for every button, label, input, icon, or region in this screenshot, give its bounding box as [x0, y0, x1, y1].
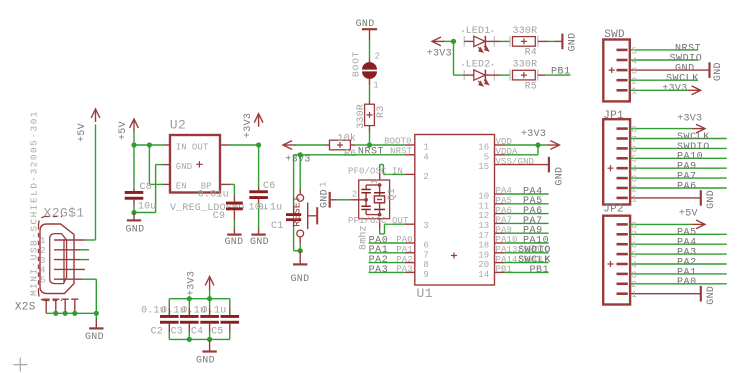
- svg-text:10: 10: [478, 192, 489, 202]
- junction dot at reset ground node: [298, 248, 303, 253]
- svg-text:GND: GND: [85, 332, 104, 343]
- svg-text:2: 2: [40, 246, 46, 256]
- wire to ground below C8: [133, 213, 135, 220]
- svg-text:PB1: PB1: [530, 265, 550, 276]
- svg-text:16: 16: [478, 143, 489, 153]
- wire crystal pin2 to ground: [331, 199, 337, 201]
- svg-text:5: 5: [632, 251, 638, 261]
- svg-text:2: 2: [375, 52, 381, 62]
- wire U2 BP pin to C9: [220, 183, 230, 185]
- connector X2G$1 dashed shield outline: [39, 217, 63, 301]
- svg-text:1: 1: [370, 179, 380, 185]
- wire jumper to R3: [369, 78, 371, 85]
- svg-text:GND: GND: [568, 33, 579, 52]
- connector X2G$1 outer shell: [40, 224, 74, 294]
- JP1 pin8 wire +3V3: [630, 128, 692, 130]
- JP1 pin1 wire GND: [630, 197, 701, 199]
- supply +3V3 arrow (cap bank): [205, 277, 214, 286]
- svg-text:1: 1: [632, 87, 638, 97]
- ground symbol below C6: [251, 234, 265, 236]
- junction dot VDD/VDDA: [535, 142, 540, 147]
- wire EN tie to IN: [148, 145, 150, 184]
- supply +3V3 arrow (pull-up R6): [283, 141, 292, 150]
- junction dot LED supply: [451, 39, 456, 44]
- svg-text:7: 7: [632, 135, 638, 145]
- SWD pin4 wire SWDIO: [630, 59, 698, 61]
- svg-text:1: 1: [319, 181, 329, 187]
- svg-text:3: 3: [632, 175, 638, 185]
- svg-text:+5V: +5V: [679, 209, 698, 220]
- svg-text:6: 6: [632, 241, 638, 251]
- svg-text:19: 19: [478, 250, 489, 260]
- pushbutton RESET (S1): [297, 195, 304, 202]
- supply +3V3 arrow (SWD): [692, 86, 701, 95]
- wire NRST down to reset switch: [299, 155, 301, 189]
- JP2 pin2 wire PA0: [630, 283, 727, 285]
- ground symbol below C8: [127, 219, 141, 221]
- svg-text:PA9: PA9: [496, 225, 513, 235]
- ground symbol below X2S: [89, 327, 103, 329]
- crystal Q1 internal symbol: [366, 184, 380, 186]
- JP1 pin4 wire PA9: [630, 167, 727, 169]
- svg-text:5: 5: [484, 152, 490, 162]
- svg-text:VDDA: VDDA: [496, 147, 519, 157]
- svg-text:GND: GND: [196, 356, 215, 367]
- svg-text:0.01u: 0.01u: [198, 190, 229, 201]
- svg-text:GND: GND: [291, 274, 310, 285]
- ground symbol below C9: [227, 234, 241, 236]
- JP2 pin4 wire PA2: [630, 263, 727, 265]
- svg-text:1: 1: [632, 290, 638, 300]
- junction dot at C8 top: [131, 142, 136, 147]
- ground symbol right of R4 (rotated): [561, 34, 563, 50]
- capacitor C3 0.1u: [188, 299, 190, 308]
- svg-text:MINI-USB-SCHIELD-32005-301: MINI-USB-SCHIELD-32005-301: [29, 110, 40, 296]
- JP2 origin cross: [608, 261, 614, 267]
- SWD pin3 wire GND: [630, 69, 710, 71]
- U1 VSS/GND wire: [495, 164, 549, 166]
- X2G$1 pin 3 (D+) lead with stub: [54, 259, 80, 261]
- SWD origin cross: [609, 67, 615, 73]
- X2G$1 pin 4 (ID) lead: [54, 268, 85, 270]
- svg-text:PA2: PA2: [396, 255, 413, 265]
- svg-text:PA4: PA4: [496, 186, 513, 196]
- svg-text:15: 15: [478, 162, 489, 172]
- wire LED1 to R4: [494, 40, 500, 42]
- supply +5V arrow (regulator input): [130, 119, 139, 128]
- junction dot C8 ground node: [131, 210, 136, 215]
- U2 origin cross: [196, 161, 202, 167]
- JP1 pin contacts: [617, 127, 628, 130]
- svg-text:1: 1: [632, 194, 638, 204]
- svg-text:PA0: PA0: [396, 235, 413, 245]
- svg-text:1: 1: [373, 81, 379, 91]
- SWD pin2 wire SWCLK: [630, 79, 698, 81]
- svg-text:0.1u: 0.1u: [258, 202, 283, 213]
- svg-text:PB1: PB1: [496, 265, 513, 275]
- svg-text:3: 3: [632, 270, 638, 280]
- svg-text:+5V: +5V: [77, 123, 88, 142]
- LED LED2: [463, 70, 465, 81]
- svg-text:PB1: PB1: [551, 67, 571, 78]
- wire switch to ground node: [299, 237, 301, 243]
- wire R3 to BOOT0 node: [369, 126, 371, 132]
- svg-text:PF1/OSC_OUT: PF1/OSC_OUT: [348, 216, 409, 226]
- junction dots on bottom rail: [187, 337, 192, 342]
- svg-text:PA3: PA3: [396, 265, 413, 275]
- svg-text:GND: GND: [706, 286, 717, 305]
- svg-text:4: 4: [40, 266, 46, 276]
- svg-text:C5: C5: [211, 326, 223, 337]
- svg-text:4: 4: [632, 260, 638, 270]
- crystal pin3 lead down: [379, 219, 381, 230]
- svg-text:+5V: +5V: [118, 121, 129, 140]
- svg-text:12: 12: [478, 211, 489, 221]
- svg-text:PA6: PA6: [496, 206, 513, 216]
- svg-text:5: 5: [632, 155, 638, 165]
- X2G$1 pin 5 (GND) lead: [54, 278, 84, 280]
- U1 PA0-PA3 wires and labels: [369, 242, 405, 244]
- svg-text:2: 2: [632, 184, 638, 194]
- svg-text:GND: GND: [319, 189, 330, 208]
- svg-text:5: 5: [632, 46, 638, 56]
- svg-text:C3: C3: [171, 326, 183, 337]
- svg-text:+3V3: +3V3: [243, 113, 254, 138]
- svg-text:330R: 330R: [356, 104, 367, 129]
- svg-text:PA1: PA1: [396, 245, 413, 255]
- svg-text:8: 8: [423, 260, 429, 270]
- header JP2 body: [603, 216, 630, 305]
- JP2 pin5 wire PA3: [630, 253, 727, 255]
- svg-text:GND: GND: [126, 225, 145, 236]
- wire +5V arrow down to IN node: [133, 132, 135, 145]
- svg-text:14: 14: [478, 270, 489, 280]
- svg-text:4: 4: [423, 152, 429, 162]
- supply +3V3 arrow (U1): [550, 141, 559, 150]
- svg-text:GND: GND: [706, 190, 717, 209]
- svg-text:U2: U2: [170, 118, 186, 133]
- svg-text:RESET: RESET: [293, 196, 304, 227]
- header SWD body: [603, 40, 630, 102]
- svg-text:+3V3: +3V3: [677, 113, 702, 124]
- svg-text:11: 11: [478, 201, 489, 211]
- svg-text:10k: 10k: [338, 132, 357, 144]
- JP1 pin2 wire PA6: [630, 187, 727, 189]
- crystal internal junction dots: [378, 183, 382, 187]
- wire rail to ground: [95, 313, 97, 319]
- ground symbol right of JP2 (rotated): [700, 286, 702, 302]
- svg-text:5: 5: [40, 275, 46, 285]
- connector X2G$1 inner slot: [50, 234, 67, 284]
- wire +3V3 branch to LED2: [454, 74, 465, 76]
- supply +3V3 arrow (JP1): [696, 124, 705, 133]
- JP2 pin1 wire GND: [630, 293, 701, 295]
- svg-text:13: 13: [478, 221, 489, 231]
- ground symbol left of crystal (rotated): [329, 192, 331, 208]
- svg-text:JP2: JP2: [603, 203, 624, 215]
- svg-text:7: 7: [632, 231, 638, 241]
- svg-text:2: 2: [352, 190, 358, 200]
- svg-text:17: 17: [478, 231, 489, 241]
- svg-text:GND: GND: [555, 167, 566, 186]
- crystal Q1 body box: [359, 180, 390, 219]
- wire USB pin5 to shield gnd rail: [84, 278, 97, 280]
- SWD pin1 wire +3V3: [630, 89, 688, 91]
- svg-text:OUT: OUT: [192, 143, 209, 153]
- junction dots on shield rail: [53, 311, 58, 316]
- SWD pin5 wire NRST: [630, 49, 698, 51]
- X2G$1 pin 1 (VBUS) lead: [54, 239, 85, 241]
- wire R4 to ground: [538, 40, 548, 42]
- svg-text:PA6: PA6: [677, 181, 697, 192]
- supply +3V3 arrow (regulator output): [254, 114, 263, 123]
- wire bank to ground: [209, 339, 211, 351]
- X2G$1 pin 2 (D-) lead with stub: [54, 249, 80, 251]
- svg-text:3: 3: [632, 67, 638, 77]
- wire IN row: [134, 144, 163, 146]
- wire down to LED2 branch: [453, 41, 455, 75]
- wire R6 to junction: [350, 144, 355, 146]
- svg-text:IN: IN: [176, 143, 187, 153]
- svg-text:4: 4: [632, 56, 638, 66]
- SWD pin contacts: [617, 49, 628, 52]
- wire NRST row to U1 pin 4: [300, 154, 405, 156]
- svg-text:X2G$1: X2G$1: [44, 206, 85, 221]
- svg-text:20: 20: [478, 260, 489, 270]
- resistor R3 330R: [365, 104, 375, 125]
- svg-text:8mhz: 8mhz: [357, 225, 369, 250]
- svg-text:R3: R3: [376, 106, 387, 118]
- microcontroller U1 body: [415, 135, 495, 286]
- svg-text:9: 9: [423, 270, 429, 280]
- capacitor C5 0.1u: [229, 299, 231, 308]
- svg-text:VSS/GND: VSS/GND: [496, 157, 535, 167]
- shield ground rail wire: [46, 312, 96, 314]
- svg-text:R4: R4: [525, 48, 537, 59]
- svg-text:18: 18: [478, 241, 489, 251]
- JP1 pin6 wire SWDIO: [630, 147, 727, 149]
- wire +5V to USB pin1: [85, 239, 96, 241]
- supply +5V arrow (USB): [91, 109, 100, 118]
- svg-text:GND: GND: [225, 237, 244, 248]
- X2S shield pins (4 hooks): [43, 299, 50, 313]
- svg-text:+3V3: +3V3: [662, 84, 687, 95]
- wire crystal to U1 pin2 (PF0/OSC_IN): [379, 165, 381, 169]
- JP1 pin7 wire SWCLK: [630, 138, 727, 140]
- svg-text:3: 3: [40, 256, 46, 266]
- wire LED2 to R5: [494, 74, 500, 76]
- svg-text:8: 8: [632, 125, 638, 135]
- wire BOOT0 to U1 pin 1: [370, 144, 405, 146]
- svg-text:PA10: PA10: [496, 235, 518, 245]
- svg-text:1: 1: [40, 236, 46, 246]
- junction dot NRST node: [298, 152, 303, 157]
- sheet origin cross: [13, 358, 27, 372]
- ground symbol right of SWD (rotated): [708, 62, 710, 78]
- resistor R4 330R: [509, 36, 511, 47]
- resistor R6 10k: [330, 140, 351, 150]
- svg-text:0.1u: 0.1u: [202, 306, 227, 317]
- svg-text:4: 4: [632, 165, 638, 175]
- U1 right port wires PA4..PB1 with labels: [495, 193, 505, 195]
- capacitor C4 0.1u: [209, 299, 211, 308]
- JP2 pin8 wire +5V: [630, 223, 692, 225]
- svg-text:VDD: VDD: [496, 137, 513, 147]
- junction dot at EN branch: [147, 142, 152, 147]
- resistor R5 330R: [509, 70, 511, 81]
- wire down to ground symbol: [299, 251, 301, 264]
- svg-text:PA3: PA3: [369, 265, 389, 276]
- svg-text:1: 1: [423, 143, 429, 153]
- svg-text:3: 3: [423, 221, 429, 231]
- LED LED1: [463, 36, 465, 47]
- JP2 pin7 wire PA5: [630, 233, 727, 235]
- svg-text:C4: C4: [191, 326, 203, 337]
- wire U2 OUT to +3V3 node: [220, 144, 230, 146]
- capacitor C2 0.1u: [168, 299, 170, 308]
- svg-text:+3V3: +3V3: [187, 271, 198, 296]
- svg-text:PF0/OSC_IN: PF0/OSC_IN: [348, 166, 403, 176]
- svg-text:U1: U1: [417, 286, 433, 301]
- U1 origin cross: [451, 253, 457, 259]
- svg-text:GND: GND: [176, 162, 193, 172]
- U1 VDDA wire: [495, 154, 505, 156]
- svg-text:2: 2: [423, 172, 429, 182]
- supply +3V3 arrow (LEDs): [432, 37, 441, 46]
- JP2 pin3 wire PA1: [630, 273, 727, 275]
- svg-text:BOOT0: BOOT0: [384, 136, 412, 146]
- svg-text:LED2: LED2: [466, 60, 491, 71]
- wire NRST branch to C1: [294, 154, 301, 156]
- svg-text:EN: EN: [176, 182, 187, 192]
- wire +3V3 to R6: [294, 144, 326, 146]
- header JP1 body: [603, 119, 630, 204]
- svg-text:R5: R5: [525, 81, 537, 92]
- svg-text:NRST: NRST: [358, 146, 384, 157]
- wire crystal to U1 pin3 (PF1/OSC_OUT): [379, 230, 381, 234]
- supply +5V arrow (JP2): [696, 220, 705, 229]
- svg-text:330R: 330R: [513, 26, 538, 37]
- ground symbol right of U1 (rotated): [548, 157, 550, 173]
- crystal pin1 lead up: [379, 169, 381, 181]
- svg-text:C2: C2: [151, 326, 163, 337]
- JP2 pin contacts: [617, 223, 628, 226]
- junction dot at C6 top: [256, 142, 261, 147]
- ground symbol right of JP1 (rotated): [700, 190, 702, 206]
- JP1 pin3 wire PA7: [630, 177, 727, 179]
- cap bank top rail wire: [169, 298, 230, 300]
- svg-text:BOOT: BOOT: [351, 51, 362, 77]
- svg-text:NRST: NRST: [390, 146, 413, 156]
- wire gnd to solder jumper: [369, 29, 371, 40]
- svg-text:C1: C1: [271, 221, 283, 232]
- U1 VDD wire to +3V3: [495, 144, 505, 146]
- ground symbol below reset switch: [293, 263, 307, 265]
- svg-text:10u: 10u: [138, 201, 157, 212]
- wire U2 GND pin routing to C8 ground node: [163, 164, 170, 166]
- svg-text:+3V3: +3V3: [521, 129, 546, 140]
- svg-text:PA7: PA7: [496, 216, 513, 226]
- junction dot BOOT0 node: [367, 142, 372, 147]
- junction dots on top rail: [187, 296, 192, 301]
- svg-text:LED1: LED1: [466, 26, 491, 37]
- JP1 origin cross: [608, 165, 614, 171]
- svg-text:6: 6: [423, 241, 429, 251]
- svg-text:X2S: X2S: [15, 302, 36, 314]
- ground symbol below cap bank: [202, 350, 216, 352]
- svg-text:+3V3: +3V3: [427, 48, 452, 59]
- svg-text:6: 6: [632, 145, 638, 155]
- svg-text:330R: 330R: [513, 60, 538, 71]
- svg-text:PA5: PA5: [496, 196, 513, 206]
- cap bank bottom rail wire: [169, 338, 230, 340]
- wire +3V3 to LED node: [443, 40, 454, 42]
- svg-text:8: 8: [632, 221, 638, 231]
- svg-text:7: 7: [423, 250, 429, 260]
- svg-text:C9: C9: [213, 211, 225, 222]
- connector X2G$1 inner tongue line: [63, 239, 65, 283]
- JP2 pin6 wire PA4: [630, 243, 727, 245]
- wire R5 to net PB1: [538, 74, 545, 76]
- svg-text:GND: GND: [713, 62, 724, 81]
- voltage regulator U2: [170, 135, 220, 193]
- svg-text:Q1: Q1: [387, 188, 398, 200]
- JP1 pin5 wire PA10: [630, 157, 727, 159]
- svg-text:2: 2: [632, 280, 638, 290]
- svg-text:2: 2: [632, 77, 638, 87]
- solder jumper BOOT (SJ): [362, 62, 377, 69]
- svg-text:PA0: PA0: [677, 277, 697, 288]
- svg-text:GND: GND: [250, 237, 269, 248]
